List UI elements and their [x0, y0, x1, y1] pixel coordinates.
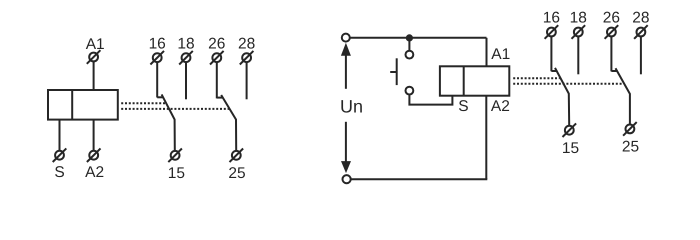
svg-text:26: 26 [603, 9, 620, 26]
svg-text:A1: A1 [86, 36, 105, 53]
fixed contact seat 16 (right) [551, 70, 557, 72]
fixed contact seat 26 (right) [611, 70, 617, 72]
mechanical linkage dotted line lower (left) [121, 108, 229, 110]
supply terminal top (right diagram) [342, 34, 350, 42]
moving contact 25-26 (right) [616, 68, 630, 124]
svg-text:S: S [54, 164, 64, 181]
wire bottom rail [351, 178, 488, 180]
terminal 16 (left) [150, 51, 164, 65]
wire terminal 28 (right) [640, 37, 642, 75]
mechanical linkage dotted line upper (right) [513, 77, 559, 79]
wire terminal 18 (left) [185, 62, 187, 99]
wire A2 lead (left) [93, 120, 95, 151]
wire top rail [350, 37, 487, 39]
terminal 26 (left) [210, 51, 224, 65]
terminal S (left) [53, 148, 67, 162]
fixed contact seat 26 (left) [217, 97, 223, 99]
moving contact 25-26 (left) [221, 95, 236, 150]
svg-text:15: 15 [562, 140, 579, 157]
pushbutton actuator [390, 58, 397, 85]
svg-text:16: 16 [149, 35, 166, 52]
terminal 26 (right) [605, 25, 619, 39]
terminal 18 (left) [179, 51, 193, 65]
svg-text:16: 16 [543, 9, 560, 26]
terminal A1 (left) [87, 50, 101, 64]
terminal 25 (right) [623, 122, 637, 136]
wire terminal 28 (left) [246, 62, 248, 99]
svg-text:18: 18 [570, 9, 587, 26]
pushbutton bottom contact terminal [406, 87, 414, 95]
supply terminal bottom (right diagram) [343, 175, 351, 183]
voltage arrow down [341, 122, 351, 173]
wire terminal 26 to contact (right) [610, 37, 612, 72]
svg-text:28: 28 [238, 35, 255, 52]
moving contact 15-16 (left) [162, 94, 175, 150]
pushbutton top contact terminal [406, 51, 414, 59]
voltage arrow up [341, 43, 351, 89]
svg-text:S: S [458, 98, 468, 115]
terminal 15 (left) [168, 149, 182, 163]
junction dot [406, 34, 413, 41]
terminal 15 (right) [563, 123, 577, 137]
wire terminal 16 to contact (right) [550, 37, 552, 72]
svg-text:A1: A1 [491, 46, 510, 63]
wire junction to pushbutton [408, 38, 410, 51]
svg-text:25: 25 [228, 165, 245, 182]
terminal A2 (left) [87, 148, 101, 162]
svg-text:28: 28 [632, 9, 649, 26]
terminal 18 (right) [572, 25, 586, 39]
svg-text:26: 26 [208, 35, 225, 52]
mechanical linkage dotted line upper (left) [121, 102, 166, 104]
terminal 16 (right) [545, 25, 559, 39]
terminal 28 (left) [240, 51, 254, 65]
terminal 25 (left) [230, 149, 244, 163]
svg-text:18: 18 [177, 35, 194, 52]
terminal 28 (right) [634, 25, 648, 39]
mechanical linkage dotted line lower (right) [513, 83, 623, 85]
wire terminal 18 (right) [577, 37, 579, 75]
wire pushbutton to S terminal [409, 95, 452, 105]
svg-text:A2: A2 [85, 164, 104, 181]
fixed contact seat 16 (left) [157, 96, 163, 98]
wire A1 lead (right) [486, 38, 488, 67]
wire terminal 26 to contact (left) [216, 62, 218, 98]
wire A2 lead (right) [485, 96, 487, 180]
wire terminal 16 to contact (left) [156, 62, 158, 97]
relay coil box (right diagram) [440, 66, 509, 95]
wire S lead (left) [59, 120, 61, 151]
svg-text:A2: A2 [491, 98, 510, 115]
svg-text:25: 25 [622, 138, 639, 155]
wire A1 lead (left) [93, 62, 95, 90]
svg-text:15: 15 [168, 165, 185, 182]
relay coil box K1 (left diagram) [48, 90, 118, 120]
moving contact 15-16 (right) [555, 68, 569, 126]
svg-text:Un: Un [340, 96, 363, 116]
